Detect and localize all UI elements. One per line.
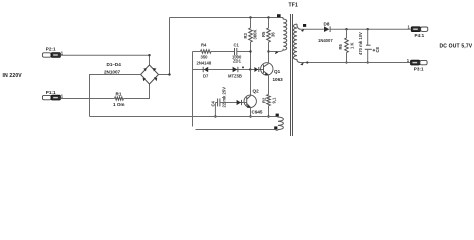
pin mark secondary top (301, 29, 304, 32)
svg-text:R2: R2 (262, 97, 267, 103)
svg-text:P1:1: P1:1 (46, 90, 56, 95)
svg-text:1 Om: 1 Om (113, 102, 125, 107)
junction C5 bottom (367, 61, 369, 63)
junction at right vertex corner (168, 73, 170, 75)
junction C1 line at R3 (249, 50, 251, 52)
junction R3 top (249, 16, 251, 18)
resistor R5 (267, 18, 271, 52)
svg-text:2N1007: 2N1007 (104, 70, 121, 75)
resistor R1 (115, 97, 124, 100)
capacitor C4 (215, 99, 241, 107)
svg-text:R6: R6 (338, 43, 343, 49)
connector P3:1 (411, 60, 428, 65)
svg-text:D7: D7 (203, 74, 209, 79)
svg-text:2N4148: 2N4148 (197, 61, 212, 66)
wire Q2 emitter to rail (250, 107, 252, 116)
primary winding (282, 18, 287, 51)
pin mark secondary bottom (300, 62, 304, 65)
polarity square primary (277, 14, 281, 17)
junction R6 bottom (345, 61, 347, 63)
diode D7 (203, 67, 208, 73)
svg-text:C8: C8 (375, 46, 380, 52)
connector P4:1 (411, 27, 428, 32)
diode D6 at Q2 base (237, 100, 242, 105)
svg-text:R5: R5 (261, 31, 266, 37)
wire secondary bottom to P3 (301, 62, 411, 64)
svg-text:TF1: TF1 (289, 3, 298, 9)
connector P1:1 (42, 95, 60, 100)
wire bridge left vertex to ground rail (90, 75, 141, 117)
secondary winding (293, 24, 300, 63)
svg-text:1N4007: 1N4007 (318, 38, 333, 43)
wire secondary top to D8 (301, 28, 324, 30)
connector P2:1 (42, 53, 60, 58)
wire C4 stub to rail (214, 103, 216, 117)
junction R5 top (267, 16, 269, 18)
wire Q1 collector (268, 52, 270, 64)
junction R2 bottom (267, 115, 269, 117)
svg-text:9,1: 9,1 (272, 97, 277, 103)
svg-text:470 mk 10V: 470 mk 10V (358, 32, 363, 55)
diode D8 (324, 26, 330, 32)
wire Q1 emitter to R2 (268, 75, 270, 95)
resistor R2 (267, 95, 271, 117)
wire R4 branch top (193, 51, 201, 53)
svg-text:22 mk 25V: 22 mk 25V (222, 87, 227, 108)
polarity square feedback bottom (274, 126, 277, 129)
wire D7 branch (193, 69, 264, 71)
bridge rectifier D1-D4 (141, 65, 159, 84)
junction R6 top (345, 28, 347, 30)
svg-text:D8: D8 (324, 22, 330, 27)
zener diode MTZ5B (233, 67, 244, 73)
svg-text:P4:1: P4:1 (415, 33, 425, 38)
svg-text:R4: R4 (201, 43, 207, 48)
wire Q2 collector to base node (250, 70, 252, 96)
transistor Q1 (261, 63, 273, 76)
capacitor C1 (235, 48, 237, 56)
wire C1 to R3 node (237, 51, 251, 53)
wire collector node to primary bottom (269, 49, 284, 52)
wire P1 to R1 (60, 98, 114, 100)
svg-text:R3: R3 (243, 32, 248, 38)
wire R4 to C1 (211, 51, 234, 53)
svg-text:Q2: Q2 (253, 89, 260, 94)
svg-text:C1: C1 (234, 43, 240, 48)
svg-text:1 K: 1 K (350, 42, 355, 49)
svg-text:P2:1: P2:1 (46, 47, 56, 52)
svg-text:C945: C945 (252, 110, 263, 115)
wire diode to Q2 base (242, 102, 247, 104)
svg-text:R1: R1 (116, 92, 122, 97)
transistor Q2 (244, 95, 256, 108)
svg-text:350: 350 (201, 55, 209, 60)
svg-text:DC OUT 5,7V: DC OUT 5,7V (440, 44, 473, 50)
polarity square secondary (303, 24, 306, 27)
feedback winding (275, 117, 283, 131)
resistor R4 (201, 50, 212, 53)
svg-text:IN 220V: IN 220V (3, 73, 23, 79)
junction C4 stub at rail (214, 115, 216, 117)
svg-text:MTZ5B: MTZ5B (228, 74, 242, 79)
svg-text:360K: 360K (253, 29, 258, 39)
junction base node Q1 (249, 68, 251, 70)
junction at P2 wire corner (148, 54, 150, 56)
svg-text:36: 36 (271, 32, 276, 37)
wire P2 to bridge top (60, 55, 149, 65)
svg-text:ZD1: ZD1 (233, 59, 242, 64)
resistor R3 (249, 18, 253, 70)
junction secondary bottom (306, 61, 308, 63)
wire lower feedback rail (196, 129, 276, 131)
wire top rail DC+ (170, 17, 283, 19)
junction collector node (267, 50, 269, 52)
junction C5 top (367, 28, 369, 30)
svg-text:C4: C4 (210, 100, 215, 106)
wire bridge right vertex to top rail (159, 18, 170, 75)
resistor R6 (345, 29, 349, 62)
svg-text:1063: 1063 (273, 77, 284, 82)
svg-text:D1–D4: D1–D4 (107, 62, 122, 67)
wire R4 branch left vertical (192, 52, 194, 127)
capacitor C5 (365, 29, 375, 62)
polarity square feedback top (276, 114, 279, 117)
pin mark primary bottom (275, 51, 279, 54)
svg-text:P3:1: P3:1 (414, 66, 424, 71)
wire ground rail (90, 116, 277, 118)
diode D5 at Q1 base (254, 67, 258, 72)
wire D8 to P4 (330, 28, 410, 30)
junction Q2 emitter at rail (249, 115, 251, 117)
svg-text:Q1: Q1 (274, 69, 281, 74)
wire R1 to bridge bottom (124, 84, 150, 99)
transformer core (291, 14, 293, 136)
